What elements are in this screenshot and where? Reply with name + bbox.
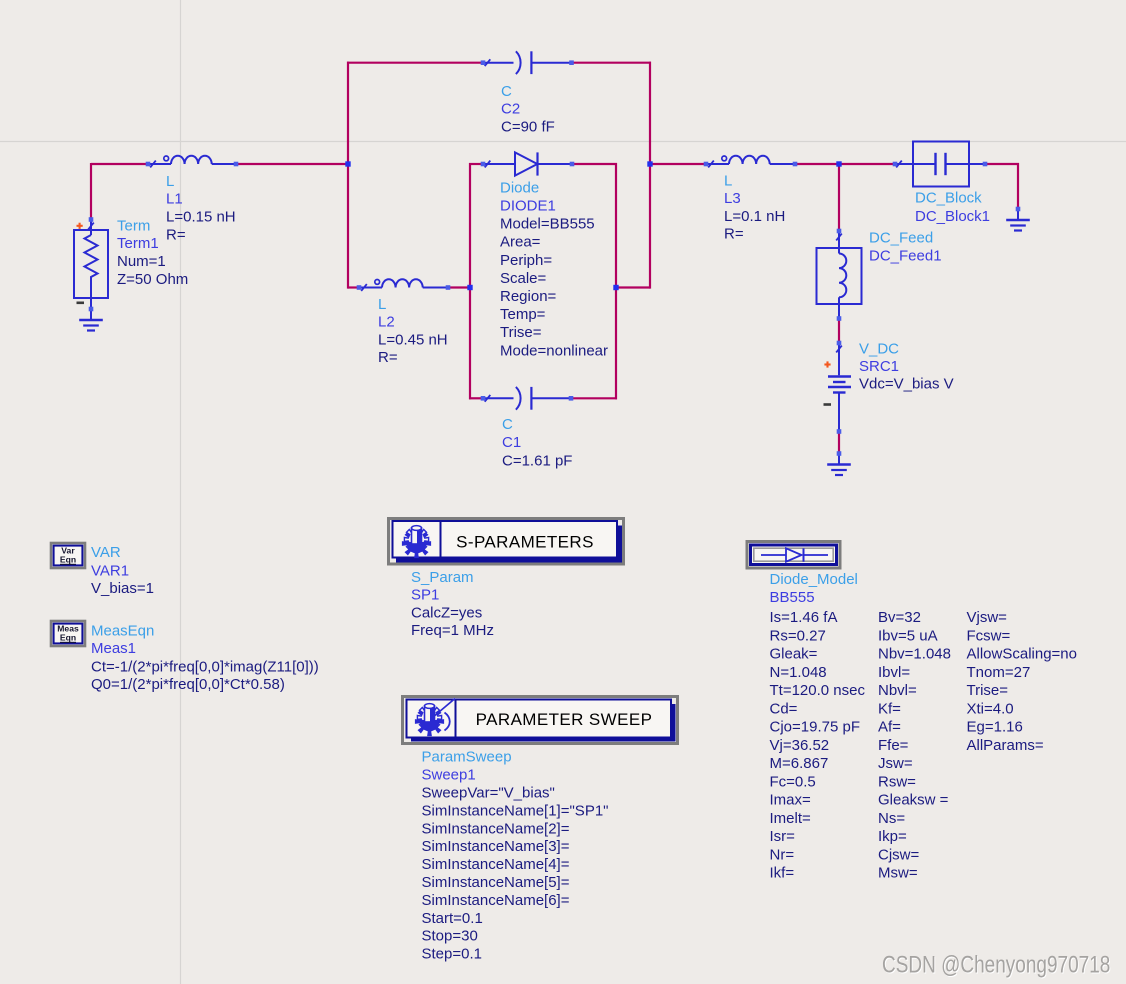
svg-text:S_Param: S_Param xyxy=(411,569,474,586)
svg-text:Rsw=: Rsw= xyxy=(878,773,916,790)
svg-text:Eqn: Eqn xyxy=(60,633,76,643)
svg-text:Vjsw=: Vjsw= xyxy=(967,609,1008,626)
svg-text:Q0=1/(2*pi*freq[0,0]*Ct*0.58): Q0=1/(2*pi*freq[0,0]*Ct*0.58) xyxy=(91,676,285,693)
svg-text:Bv=32: Bv=32 xyxy=(878,609,921,626)
svg-text:Nbvl=: Nbvl= xyxy=(878,682,917,699)
svg-text:Ibvl=: Ibvl= xyxy=(878,664,910,681)
svg-text:Vdc=V_bias V: Vdc=V_bias V xyxy=(859,376,954,393)
svg-text:C1: C1 xyxy=(502,434,521,451)
svg-text:Xti=4.0: Xti=4.0 xyxy=(967,700,1014,717)
svg-text:Stop=30: Stop=30 xyxy=(422,928,478,945)
svg-text:SP1: SP1 xyxy=(411,587,439,604)
svg-text:ParamSweep: ParamSweep xyxy=(422,749,512,766)
svg-text:Term1: Term1 xyxy=(117,235,159,252)
svg-text:SimInstanceName[5]=: SimInstanceName[5]= xyxy=(422,874,570,891)
svg-text:Trise=: Trise= xyxy=(967,682,1009,699)
svg-text:AllowScaling=no: AllowScaling=no xyxy=(967,646,1078,663)
svg-text:Temp=: Temp= xyxy=(500,306,546,323)
svg-text:Ikf=: Ikf= xyxy=(770,865,795,882)
svg-text:DC_Block: DC_Block xyxy=(915,190,982,207)
svg-text:Eg=1.16: Eg=1.16 xyxy=(967,719,1023,736)
svg-text:DIODE1: DIODE1 xyxy=(500,198,556,215)
svg-text:L: L xyxy=(166,173,174,190)
svg-text:L: L xyxy=(378,296,386,313)
svg-text:Periph=: Periph= xyxy=(500,252,552,269)
svg-text:Z=50 Ohm: Z=50 Ohm xyxy=(117,271,188,288)
svg-text:Nbv=1.048: Nbv=1.048 xyxy=(878,646,951,663)
svg-text:SimInstanceName[6]=: SimInstanceName[6]= xyxy=(422,892,570,909)
svg-text:Ibv=5 uA: Ibv=5 uA xyxy=(878,627,938,644)
svg-text:Ikp=: Ikp= xyxy=(878,828,907,845)
svg-text:Vj=36.52: Vj=36.52 xyxy=(770,737,830,754)
svg-text:C: C xyxy=(502,416,513,433)
svg-text:SimInstanceName[2]=: SimInstanceName[2]= xyxy=(422,820,570,837)
svg-text:Rs=0.27: Rs=0.27 xyxy=(770,627,826,644)
svg-text:L3: L3 xyxy=(724,190,741,207)
svg-text:R=: R= xyxy=(724,226,744,243)
svg-text:CSDN @Chenyong970718: CSDN @Chenyong970718 xyxy=(882,951,1110,978)
svg-text:Jsw=: Jsw= xyxy=(878,755,913,772)
svg-text:SweepVar="V_bias": SweepVar="V_bias" xyxy=(422,785,555,802)
svg-text:Isr=: Isr= xyxy=(770,828,796,845)
svg-text:Cd=: Cd= xyxy=(770,700,798,717)
svg-text:SimInstanceName[1]="SP1": SimInstanceName[1]="SP1" xyxy=(422,802,609,819)
svg-text:Num=1: Num=1 xyxy=(117,253,166,270)
svg-text:VAR1: VAR1 xyxy=(91,563,129,580)
svg-text:L2: L2 xyxy=(378,314,395,331)
svg-text:Ct=-1/(2*pi*freq[0,0]*imag(Z11: Ct=-1/(2*pi*freq[0,0]*imag(Z11[0])) xyxy=(91,658,319,675)
svg-text:L1: L1 xyxy=(166,191,183,208)
svg-text:Trise=: Trise= xyxy=(500,324,542,341)
svg-text:Fc=0.5: Fc=0.5 xyxy=(770,773,816,790)
svg-text:AllParams=: AllParams= xyxy=(967,737,1044,754)
svg-text:Scale=: Scale= xyxy=(500,270,547,287)
svg-text:Fcsw=: Fcsw= xyxy=(967,627,1011,644)
svg-text:DC_Block1: DC_Block1 xyxy=(915,208,990,225)
svg-text:Imelt=: Imelt= xyxy=(770,810,812,827)
svg-text:DC_Feed: DC_Feed xyxy=(869,230,933,247)
svg-text:BB555: BB555 xyxy=(770,589,815,606)
svg-text:Msw=: Msw= xyxy=(878,865,918,882)
svg-text:Diode: Diode xyxy=(500,179,539,196)
svg-text:V_bias=1: V_bias=1 xyxy=(91,580,154,597)
svg-text:M=6.867: M=6.867 xyxy=(770,755,829,772)
svg-text:N=1.048: N=1.048 xyxy=(770,664,827,681)
svg-text:SimInstanceName[3]=: SimInstanceName[3]= xyxy=(422,838,570,855)
svg-text:Tt=120.0 nsec: Tt=120.0 nsec xyxy=(770,682,866,699)
svg-text:SimInstanceName[4]=: SimInstanceName[4]= xyxy=(422,856,570,873)
svg-text:Sweep1: Sweep1 xyxy=(422,767,476,784)
svg-text:S-PARAMETERS: S-PARAMETERS xyxy=(456,533,594,552)
svg-text:Gleaksw =: Gleaksw = xyxy=(878,792,949,809)
svg-text:C=1.61 pF: C=1.61 pF xyxy=(502,452,572,469)
svg-text:Ffe=: Ffe= xyxy=(878,737,909,754)
svg-text:C: C xyxy=(501,83,512,100)
svg-text:L=0.1 nH: L=0.1 nH xyxy=(724,208,785,225)
svg-text:Cjo=19.75 pF: Cjo=19.75 pF xyxy=(770,719,860,736)
svg-text:C=90 fF: C=90 fF xyxy=(501,119,555,136)
svg-text:Diode_Model: Diode_Model xyxy=(770,571,858,588)
svg-text:CalcZ=yes: CalcZ=yes xyxy=(411,604,482,621)
svg-text:Step=0.1: Step=0.1 xyxy=(422,946,482,963)
svg-text:Start=0.1: Start=0.1 xyxy=(422,910,483,927)
svg-text:Kf=: Kf= xyxy=(878,700,901,717)
svg-text:Cjsw=: Cjsw= xyxy=(878,846,919,863)
svg-text:MeasEqn: MeasEqn xyxy=(91,623,154,640)
svg-text:Ns=: Ns= xyxy=(878,810,905,827)
svg-text:L=0.45 nH: L=0.45 nH xyxy=(378,331,448,348)
svg-text:L=0.15 nH: L=0.15 nH xyxy=(166,209,236,226)
svg-text:Area=: Area= xyxy=(500,234,541,251)
svg-text:Term: Term xyxy=(117,218,150,235)
svg-text:C2: C2 xyxy=(501,101,520,118)
svg-text:Nr=: Nr= xyxy=(770,846,795,863)
svg-text:Freq=1 MHz: Freq=1 MHz xyxy=(411,622,494,639)
svg-text:VAR: VAR xyxy=(91,544,121,561)
svg-text:Model=BB555: Model=BB555 xyxy=(500,216,595,233)
svg-text:Gleak=: Gleak= xyxy=(770,646,818,663)
svg-text:Af=: Af= xyxy=(878,719,901,736)
svg-text:Eqn: Eqn xyxy=(60,555,76,565)
svg-text:Mode=nonlinear: Mode=nonlinear xyxy=(500,342,608,359)
svg-text:PARAMETER SWEEP: PARAMETER SWEEP xyxy=(476,710,653,729)
svg-text:Meas1: Meas1 xyxy=(91,640,136,657)
svg-text:Imax=: Imax= xyxy=(770,792,812,809)
svg-text:Is=1.46 fA: Is=1.46 fA xyxy=(770,609,838,626)
svg-text:SRC1: SRC1 xyxy=(859,358,899,375)
svg-text:R=: R= xyxy=(378,349,398,366)
svg-text:L: L xyxy=(724,172,732,189)
svg-text:Tnom=27: Tnom=27 xyxy=(967,664,1031,681)
svg-text:Region=: Region= xyxy=(500,288,557,305)
svg-text:R=: R= xyxy=(166,226,186,243)
svg-text:DC_Feed1: DC_Feed1 xyxy=(869,248,942,265)
svg-text:V_DC: V_DC xyxy=(859,341,899,358)
